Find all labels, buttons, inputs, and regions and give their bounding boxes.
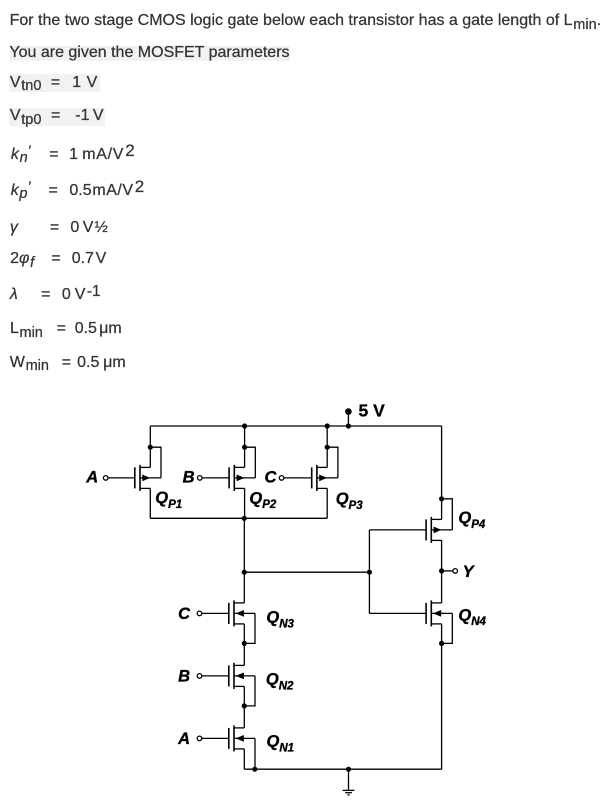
svg-text:QP2: QP2 (249, 489, 277, 511)
svg-text:A: A (85, 469, 98, 487)
svg-text:QN1: QN1 (267, 733, 295, 755)
svg-text:QN4: QN4 (458, 606, 486, 628)
svg-text:A: A (177, 730, 190, 748)
svg-text:QN2: QN2 (266, 671, 294, 693)
svg-text:5 V: 5 V (359, 401, 386, 421)
svg-text:QP1: QP1 (155, 489, 182, 511)
svg-text:QP4: QP4 (458, 509, 486, 531)
svg-text:Y: Y (463, 563, 476, 581)
svg-text:C: C (264, 469, 277, 487)
svg-text:QN3: QN3 (266, 609, 294, 631)
svg-text:B: B (183, 469, 195, 487)
svg-text:QP3: QP3 (336, 490, 364, 512)
svg-text:B: B (178, 667, 190, 685)
svg-text:C: C (178, 605, 191, 623)
